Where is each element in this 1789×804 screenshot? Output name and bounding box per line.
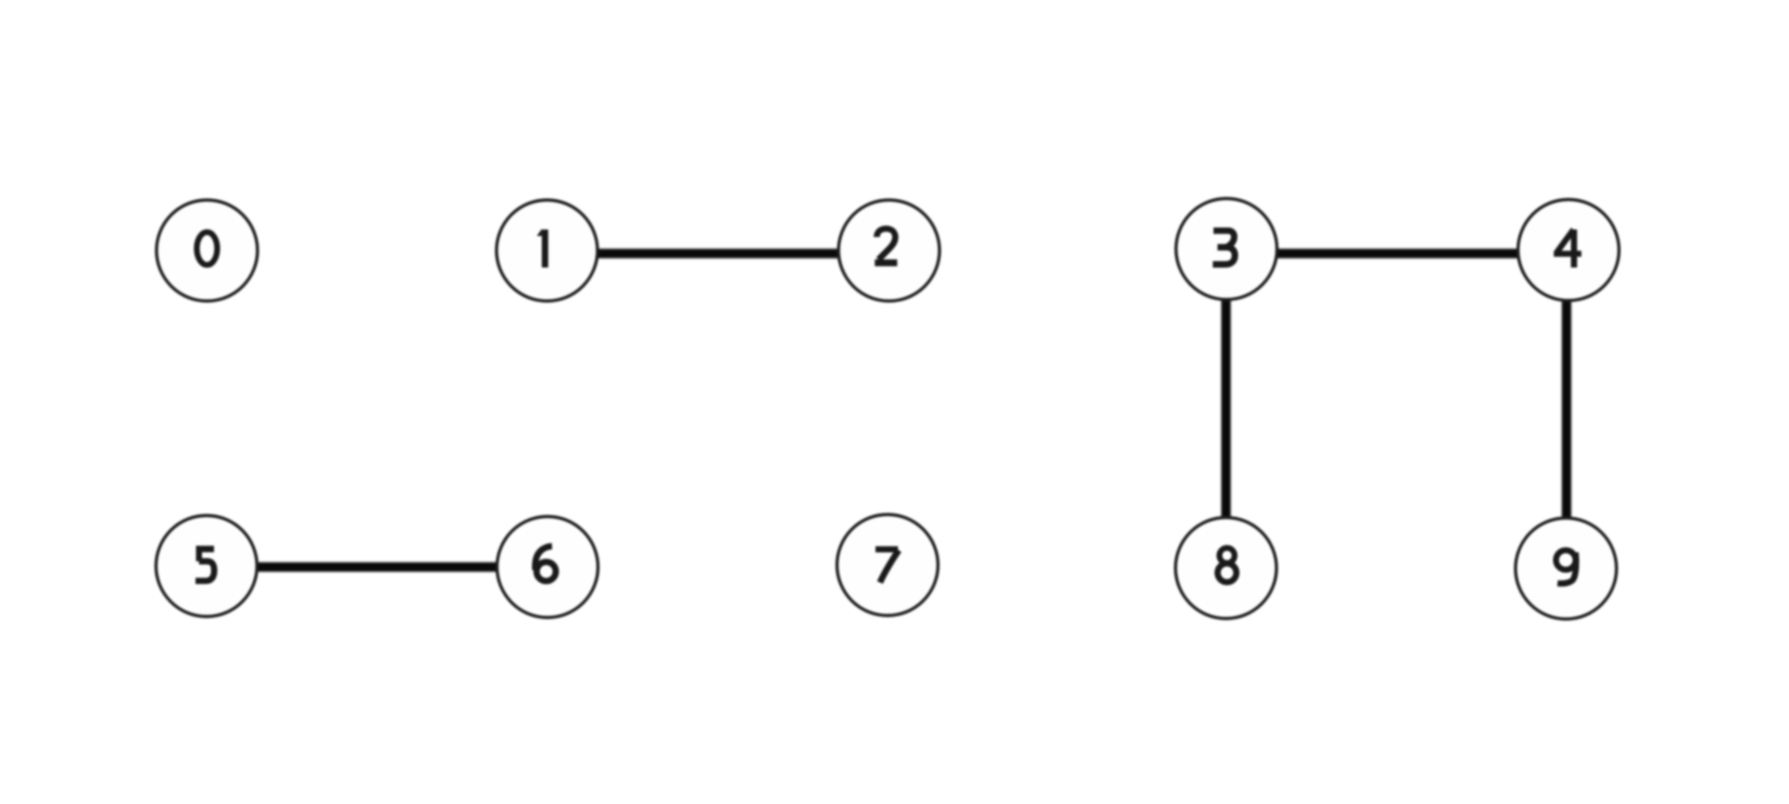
node 4 — [1518, 200, 1619, 301]
node 6 — [497, 517, 598, 618]
node 1 — [497, 200, 598, 301]
wire edge 3-8 — [1221, 249, 1231, 568]
wire edge 1-2 — [547, 249, 889, 259]
node 0 — [157, 200, 258, 301]
node 7 — [837, 515, 938, 616]
wire edge 5-6 — [207, 562, 547, 572]
wire edge 4-9 — [1562, 250, 1572, 568]
node 3 — [1176, 199, 1277, 300]
node 9 — [1516, 518, 1617, 619]
node 8 — [1176, 518, 1277, 619]
node 5 — [156, 516, 257, 617]
wire edge 3-4 — [1227, 249, 1569, 259]
node 2 — [839, 200, 940, 301]
